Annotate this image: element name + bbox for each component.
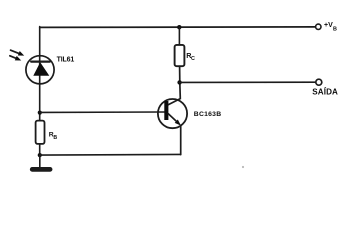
wire saida [180, 81, 316, 83]
svg-text:B: B [53, 135, 57, 141]
node collector junction [177, 80, 181, 84]
photodiode cathode bar [31, 60, 50, 62]
transistor emitter [168, 114, 181, 155]
photodiode anode triangle [33, 62, 49, 75]
label RB [49, 131, 58, 141]
resistor RB [36, 121, 45, 144]
svg-text:SAÍDA: SAÍDA [312, 88, 338, 97]
node RC top [177, 25, 181, 29]
wire base [40, 111, 165, 113]
wire photodiode branch vertical [39, 27, 41, 121]
wire RC top [178, 27, 180, 45]
faint scan speck [242, 166, 244, 168]
resistor RC [175, 45, 185, 66]
svg-text:+V: +V [324, 22, 333, 29]
terminal +VB [316, 24, 321, 29]
node base junction [38, 111, 42, 115]
svg-text:BC163B: BC163B [194, 111, 222, 118]
wire collector [168, 66, 180, 105]
photodiode TIL61 circle [26, 56, 54, 84]
terminal SAIDA [316, 79, 322, 85]
label RC [186, 51, 195, 62]
transistor Q1 circle [158, 99, 187, 128]
svg-text:B: B [333, 26, 337, 32]
svg-text:C: C [191, 56, 195, 62]
wire top supply rail [40, 26, 316, 29]
light arrow 1 [11, 50, 25, 55]
svg-text:TIL61: TIL61 [57, 57, 75, 64]
wire bottom return [40, 153, 181, 156]
label +VB [324, 22, 337, 32]
ground [32, 155, 50, 169]
transistor base bar [164, 101, 168, 120]
light arrow 2 [10, 56, 21, 61]
node emitter junction [38, 153, 42, 157]
wire RB bottom [39, 144, 41, 155]
